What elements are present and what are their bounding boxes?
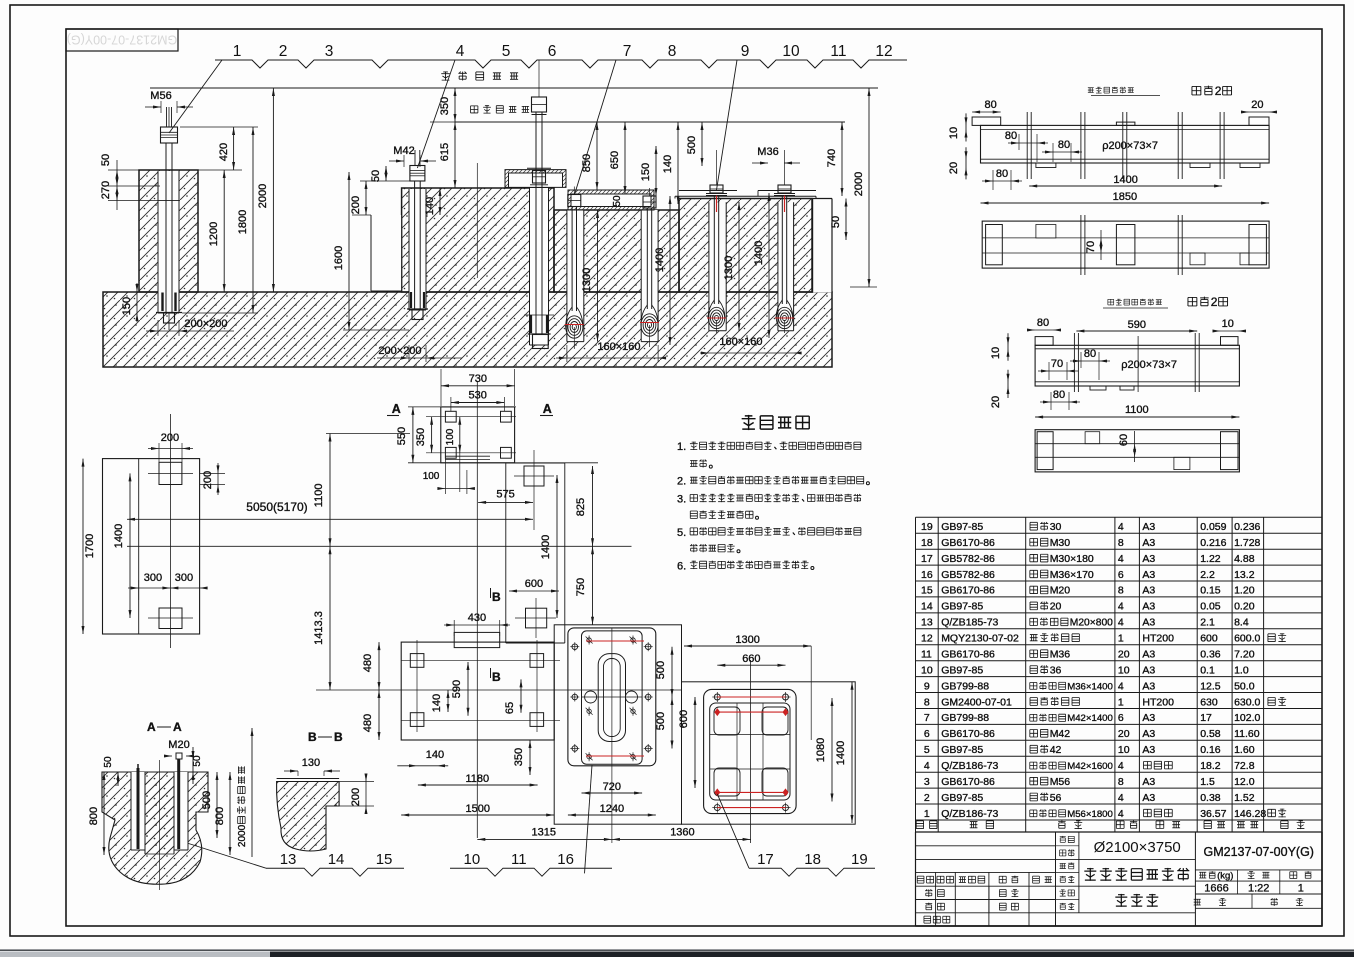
svg-text:A3: A3 [1142, 649, 1155, 661]
svg-text:3.: 3. [677, 493, 686, 505]
svg-text:4: 4 [1118, 680, 1124, 692]
svg-text:50: 50 [103, 756, 114, 768]
svg-text:Q/ZB186-73: Q/ZB186-73 [941, 760, 998, 772]
svg-text:10: 10 [921, 664, 933, 676]
svg-text:65: 65 [504, 702, 516, 714]
svg-text:20: 20 [948, 162, 960, 174]
svg-text:HT200: HT200 [1142, 633, 1174, 645]
svg-text:140: 140 [426, 749, 444, 761]
svg-text:M56: M56 [1050, 776, 1071, 788]
svg-text:B: B [492, 590, 501, 604]
svg-text:M36: M36 [1050, 649, 1071, 661]
svg-text:ρ200×73×7: ρ200×73×7 [1121, 359, 1177, 371]
svg-text:1.60: 1.60 [1234, 744, 1255, 756]
svg-text:11: 11 [511, 851, 527, 868]
svg-text:7: 7 [924, 712, 930, 724]
svg-text:16: 16 [557, 851, 574, 868]
svg-text:72.8: 72.8 [1234, 760, 1255, 772]
svg-text:30: 30 [1050, 521, 1062, 533]
svg-text:42: 42 [1050, 744, 1062, 756]
svg-text:1400: 1400 [654, 248, 666, 272]
svg-text:200×200: 200×200 [184, 318, 227, 330]
svg-text:1: 1 [1118, 696, 1124, 708]
svg-text:GB97-85: GB97-85 [941, 744, 983, 756]
svg-text:575: 575 [496, 488, 514, 500]
svg-text:200: 200 [350, 788, 362, 806]
svg-text:A3: A3 [1142, 569, 1155, 581]
svg-text:2: 2 [1215, 84, 1222, 98]
svg-text:500: 500 [201, 791, 213, 809]
svg-text:A3: A3 [1142, 537, 1155, 549]
svg-text:4: 4 [1118, 553, 1124, 565]
svg-text:20: 20 [1251, 99, 1263, 111]
svg-text:M42×1600: M42×1600 [1067, 761, 1113, 772]
svg-text:0.216: 0.216 [1200, 537, 1226, 549]
svg-text:A3: A3 [1142, 712, 1155, 724]
svg-text:B: B [308, 730, 317, 744]
svg-text:600.0: 600.0 [1234, 633, 1260, 645]
svg-text:430: 430 [468, 612, 486, 624]
svg-text:1300: 1300 [581, 268, 593, 292]
svg-text:20: 20 [1118, 649, 1130, 661]
svg-text:4: 4 [456, 43, 465, 60]
svg-text:70: 70 [1085, 241, 1097, 253]
svg-text:1: 1 [1298, 883, 1304, 895]
svg-text:1300: 1300 [735, 634, 759, 646]
svg-text:270: 270 [100, 181, 112, 199]
svg-text:5: 5 [924, 744, 930, 756]
svg-text:7.20: 7.20 [1234, 649, 1255, 661]
svg-text:10: 10 [782, 43, 800, 60]
svg-text:0.20: 0.20 [1234, 601, 1255, 613]
svg-text:730: 730 [469, 373, 487, 385]
svg-text:100: 100 [445, 428, 456, 445]
svg-text:300: 300 [144, 572, 162, 584]
svg-text:6: 6 [924, 728, 930, 740]
svg-text:M20: M20 [168, 739, 189, 751]
svg-text:Q/ZB186-73: Q/ZB186-73 [941, 808, 998, 820]
svg-text:15: 15 [376, 851, 393, 868]
svg-text:18.2: 18.2 [1200, 760, 1221, 772]
svg-text:850: 850 [581, 154, 593, 172]
svg-text:8: 8 [668, 43, 677, 60]
svg-text:660: 660 [742, 653, 760, 665]
svg-text:GM2137-07-00Y(G): GM2137-07-00Y(G) [1204, 845, 1314, 859]
svg-text:GB6170-86: GB6170-86 [941, 537, 995, 549]
svg-text:825: 825 [575, 498, 587, 516]
svg-text:14: 14 [921, 601, 933, 613]
svg-text:2: 2 [1211, 295, 1218, 309]
svg-text:1.728: 1.728 [1234, 537, 1260, 549]
svg-text:146.28: 146.28 [1234, 808, 1266, 820]
svg-text:1: 1 [233, 43, 242, 60]
svg-text:17: 17 [757, 851, 774, 868]
svg-text:GB6170-86: GB6170-86 [941, 776, 995, 788]
svg-text:11: 11 [921, 649, 932, 661]
svg-text:2: 2 [924, 792, 930, 804]
svg-text:GB6170-86: GB6170-86 [941, 649, 995, 661]
svg-text:11: 11 [830, 43, 846, 60]
svg-text:A3: A3 [1142, 585, 1155, 597]
svg-text:300: 300 [175, 572, 193, 584]
svg-text:70: 70 [1051, 358, 1063, 370]
svg-text:800: 800 [214, 807, 226, 825]
svg-text:4: 4 [1118, 792, 1124, 804]
svg-text:2.2: 2.2 [1200, 569, 1215, 581]
svg-text:GB5782-86: GB5782-86 [941, 553, 995, 565]
svg-text:0.1: 0.1 [1200, 664, 1215, 676]
svg-text:80: 80 [1005, 130, 1017, 142]
svg-text:0.16: 0.16 [1200, 744, 1221, 756]
svg-text:600: 600 [678, 710, 690, 728]
svg-text:630: 630 [1200, 696, 1218, 708]
svg-text:18: 18 [921, 537, 933, 549]
svg-text:1500: 1500 [466, 803, 490, 815]
svg-text:12.5: 12.5 [1200, 680, 1221, 692]
svg-text:50: 50 [612, 195, 623, 207]
svg-text:1400: 1400 [540, 535, 552, 559]
svg-text:1800: 1800 [237, 210, 249, 234]
svg-text:1700: 1700 [84, 534, 96, 558]
svg-text:M20: M20 [1050, 585, 1071, 597]
svg-text:140: 140 [662, 155, 674, 173]
svg-text:80: 80 [996, 168, 1008, 180]
svg-text:20: 20 [990, 396, 1002, 408]
svg-text:1666: 1666 [1204, 883, 1228, 895]
svg-text:GB799-88: GB799-88 [941, 680, 989, 692]
svg-text:13.2: 13.2 [1234, 569, 1255, 581]
svg-text:480: 480 [362, 654, 374, 672]
svg-text:80: 80 [1053, 389, 1065, 401]
svg-text:5050(5170): 5050(5170) [246, 500, 307, 514]
svg-text:A3: A3 [1142, 744, 1155, 756]
svg-text:350: 350 [513, 748, 525, 766]
svg-text:0.38: 0.38 [1200, 792, 1221, 804]
svg-text:150: 150 [640, 163, 652, 181]
svg-text:0.15: 0.15 [1200, 585, 1221, 597]
svg-text:12: 12 [921, 633, 933, 645]
svg-text:800: 800 [88, 807, 100, 825]
svg-text:2.1: 2.1 [1200, 617, 1215, 629]
svg-text:80: 80 [985, 99, 997, 111]
svg-text:1400: 1400 [1113, 174, 1137, 186]
svg-text:GB6170-86: GB6170-86 [941, 585, 995, 597]
svg-text:10: 10 [1118, 744, 1130, 756]
svg-text:2000: 2000 [257, 184, 269, 208]
svg-text:50: 50 [370, 170, 382, 182]
svg-text:5: 5 [502, 43, 511, 60]
svg-text:4: 4 [1118, 601, 1124, 613]
svg-text:4.88: 4.88 [1234, 553, 1255, 565]
svg-text:1: 1 [1118, 633, 1124, 645]
svg-text:13: 13 [280, 851, 297, 868]
svg-text:2000: 2000 [853, 172, 865, 196]
svg-text:1100: 1100 [313, 484, 325, 508]
svg-text:500: 500 [686, 136, 698, 154]
svg-text:160×160: 160×160 [719, 336, 762, 348]
svg-text:M42×1400: M42×1400 [1067, 713, 1113, 724]
svg-text:160×160: 160×160 [597, 341, 640, 353]
svg-text:M56: M56 [150, 90, 171, 102]
svg-text:3: 3 [924, 776, 930, 788]
svg-text:1100: 1100 [1125, 404, 1149, 416]
svg-text:6: 6 [1118, 712, 1124, 724]
svg-text:20: 20 [1118, 728, 1130, 740]
svg-text:1240: 1240 [600, 803, 624, 815]
svg-text:1.5: 1.5 [1200, 776, 1215, 788]
svg-text:350: 350 [415, 428, 427, 446]
svg-text:1.0: 1.0 [1234, 664, 1249, 676]
svg-text:615: 615 [439, 143, 451, 161]
svg-text:80: 80 [1058, 139, 1070, 151]
svg-text:8: 8 [1118, 776, 1124, 788]
svg-text:4: 4 [1118, 760, 1124, 772]
svg-text:7: 7 [623, 43, 632, 60]
svg-text:17: 17 [1200, 712, 1212, 724]
svg-text:MQY2130-07-02: MQY2130-07-02 [941, 633, 1019, 645]
svg-text:(kg): (kg) [1217, 871, 1233, 882]
svg-text:140: 140 [431, 694, 443, 712]
svg-text:1.: 1. [677, 441, 686, 453]
svg-text:14: 14 [328, 851, 345, 868]
svg-text:10: 10 [1118, 664, 1130, 676]
svg-text:1180: 1180 [466, 773, 490, 785]
svg-text:100: 100 [423, 471, 440, 482]
svg-text:56: 56 [1050, 792, 1062, 804]
svg-text:1600: 1600 [333, 246, 345, 270]
svg-text:80: 80 [1084, 348, 1096, 360]
svg-text:200: 200 [350, 196, 362, 214]
svg-text:4: 4 [924, 760, 930, 772]
svg-text:A3: A3 [1142, 728, 1155, 740]
svg-text:1: 1 [924, 808, 930, 820]
svg-text:HT200: HT200 [1142, 696, 1174, 708]
svg-text:80: 80 [1037, 317, 1049, 329]
svg-text:150: 150 [121, 297, 133, 315]
svg-text:Q/ZB185-73: Q/ZB185-73 [941, 617, 998, 629]
svg-text:17: 17 [921, 553, 933, 565]
svg-text:9: 9 [741, 43, 750, 60]
svg-text:ρ200×73×7: ρ200×73×7 [1102, 140, 1158, 152]
svg-text:2.: 2. [677, 476, 686, 488]
svg-text:1080: 1080 [815, 738, 827, 762]
svg-text:8.4: 8.4 [1234, 617, 1249, 629]
svg-text:1413.3: 1413.3 [313, 611, 325, 645]
svg-text:102.0: 102.0 [1234, 712, 1260, 724]
svg-text:15: 15 [921, 585, 933, 597]
svg-text:10: 10 [990, 347, 1002, 359]
svg-text:4: 4 [1118, 617, 1124, 629]
svg-text:GM2400-07-01: GM2400-07-01 [941, 696, 1012, 708]
svg-text:A3: A3 [1142, 792, 1155, 804]
svg-text:A3: A3 [1142, 664, 1155, 676]
svg-text:1400: 1400 [835, 741, 847, 765]
svg-text:1:22: 1:22 [1248, 883, 1269, 895]
svg-text:4: 4 [1118, 808, 1124, 820]
svg-text:1200: 1200 [208, 222, 220, 246]
svg-text:8: 8 [1118, 537, 1124, 549]
svg-text:18: 18 [804, 851, 821, 868]
svg-text:630.0: 630.0 [1234, 696, 1260, 708]
svg-text:50: 50 [192, 755, 203, 767]
svg-text:M30×180: M30×180 [1050, 553, 1094, 565]
svg-text:0.05: 0.05 [1200, 601, 1221, 613]
svg-text:M36×1400: M36×1400 [1067, 681, 1113, 692]
svg-text:1315: 1315 [532, 826, 556, 838]
svg-text:1300: 1300 [723, 256, 735, 280]
svg-text:M36: M36 [757, 146, 778, 158]
svg-text:GB5782-86: GB5782-86 [941, 569, 995, 581]
svg-text:B: B [492, 670, 501, 684]
svg-text:590: 590 [451, 680, 463, 698]
svg-text:6: 6 [1118, 569, 1124, 581]
svg-text:A3: A3 [1142, 601, 1155, 613]
svg-text:1400: 1400 [113, 524, 125, 548]
svg-text:A3: A3 [1142, 776, 1155, 788]
svg-text:A3: A3 [1142, 521, 1155, 533]
svg-text:480: 480 [362, 714, 374, 732]
svg-text:20: 20 [1050, 601, 1062, 613]
svg-text:16: 16 [921, 569, 933, 581]
svg-text:50.0: 50.0 [1234, 680, 1255, 692]
svg-text:4: 4 [1118, 521, 1124, 533]
svg-text:9: 9 [924, 680, 930, 692]
svg-text:0.36: 0.36 [1200, 649, 1221, 661]
svg-text:19: 19 [921, 521, 933, 533]
svg-text:720: 720 [603, 781, 621, 793]
svg-text:200: 200 [202, 471, 214, 489]
svg-text:2: 2 [279, 43, 288, 60]
svg-text:GB97-85: GB97-85 [941, 601, 983, 613]
svg-text:1400: 1400 [753, 241, 765, 265]
svg-text:8: 8 [924, 696, 930, 708]
svg-text:A: A [543, 402, 552, 416]
svg-text:A3: A3 [1142, 680, 1155, 692]
svg-text:60: 60 [1118, 434, 1130, 446]
svg-text:200×200: 200×200 [378, 345, 421, 357]
svg-text:50: 50 [100, 154, 112, 166]
svg-text:A: A [392, 402, 401, 416]
svg-text:2000: 2000 [237, 824, 248, 847]
svg-text:A: A [147, 720, 156, 734]
svg-text:M30: M30 [1050, 537, 1071, 549]
svg-text:M42: M42 [1050, 728, 1071, 740]
svg-text:GB97-85: GB97-85 [941, 664, 983, 676]
svg-text:8: 8 [1118, 585, 1124, 597]
svg-text:140: 140 [424, 197, 436, 215]
svg-text:36.57: 36.57 [1200, 808, 1226, 820]
svg-text:650: 650 [609, 151, 621, 169]
svg-text:1.22: 1.22 [1200, 553, 1221, 565]
svg-text:550: 550 [396, 427, 408, 445]
svg-text:A3: A3 [1142, 553, 1155, 565]
svg-text:10: 10 [948, 127, 960, 139]
svg-text:A3: A3 [1142, 617, 1155, 629]
svg-text:M56×1800: M56×1800 [1067, 809, 1113, 820]
svg-text:750: 750 [575, 578, 587, 596]
svg-text:36: 36 [1050, 664, 1062, 676]
svg-text:10: 10 [1222, 318, 1234, 330]
svg-text:Ø2100×3750: Ø2100×3750 [1094, 839, 1181, 856]
svg-text:530: 530 [469, 390, 487, 402]
svg-text:19: 19 [851, 851, 868, 868]
svg-text:0.58: 0.58 [1200, 728, 1221, 740]
svg-text:12.0: 12.0 [1234, 776, 1255, 788]
svg-text:13: 13 [921, 617, 933, 629]
svg-text:0.059: 0.059 [1200, 521, 1226, 533]
svg-text:1360: 1360 [670, 826, 694, 838]
svg-text:1.20: 1.20 [1234, 585, 1255, 597]
svg-text:GB799-88: GB799-88 [941, 712, 989, 724]
svg-text:50: 50 [830, 216, 842, 228]
svg-text:590: 590 [1128, 319, 1146, 331]
svg-text:5.: 5. [677, 527, 686, 539]
svg-text:1850: 1850 [1113, 191, 1137, 203]
svg-text:420: 420 [218, 143, 230, 161]
svg-text:0.236: 0.236 [1234, 521, 1260, 533]
svg-text:130: 130 [302, 757, 320, 769]
svg-text:B: B [334, 730, 343, 744]
svg-text:12: 12 [875, 43, 892, 60]
svg-text:GB97-85: GB97-85 [941, 792, 983, 804]
svg-text:M36×170: M36×170 [1050, 569, 1094, 581]
svg-text:M20×800: M20×800 [1070, 618, 1113, 629]
svg-text:GB97-85: GB97-85 [941, 521, 983, 533]
svg-text:GM2137-07-00Y(G): GM2137-07-00Y(G) [67, 33, 177, 47]
svg-text:500: 500 [655, 661, 667, 679]
svg-text:500: 500 [655, 712, 667, 730]
svg-text:10: 10 [464, 851, 481, 868]
svg-text:6.: 6. [677, 560, 686, 572]
svg-text:A: A [173, 720, 182, 734]
svg-text:1.52: 1.52 [1234, 792, 1255, 804]
svg-text:6: 6 [548, 43, 557, 60]
svg-text:600: 600 [525, 578, 543, 590]
svg-text:740: 740 [826, 149, 838, 167]
svg-text:200: 200 [161, 432, 179, 444]
svg-text:3: 3 [325, 43, 334, 60]
svg-text:11.60: 11.60 [1234, 728, 1260, 740]
svg-text:600: 600 [1200, 633, 1218, 645]
svg-text:GB6170-86: GB6170-86 [941, 728, 995, 740]
svg-text:350: 350 [439, 97, 451, 115]
